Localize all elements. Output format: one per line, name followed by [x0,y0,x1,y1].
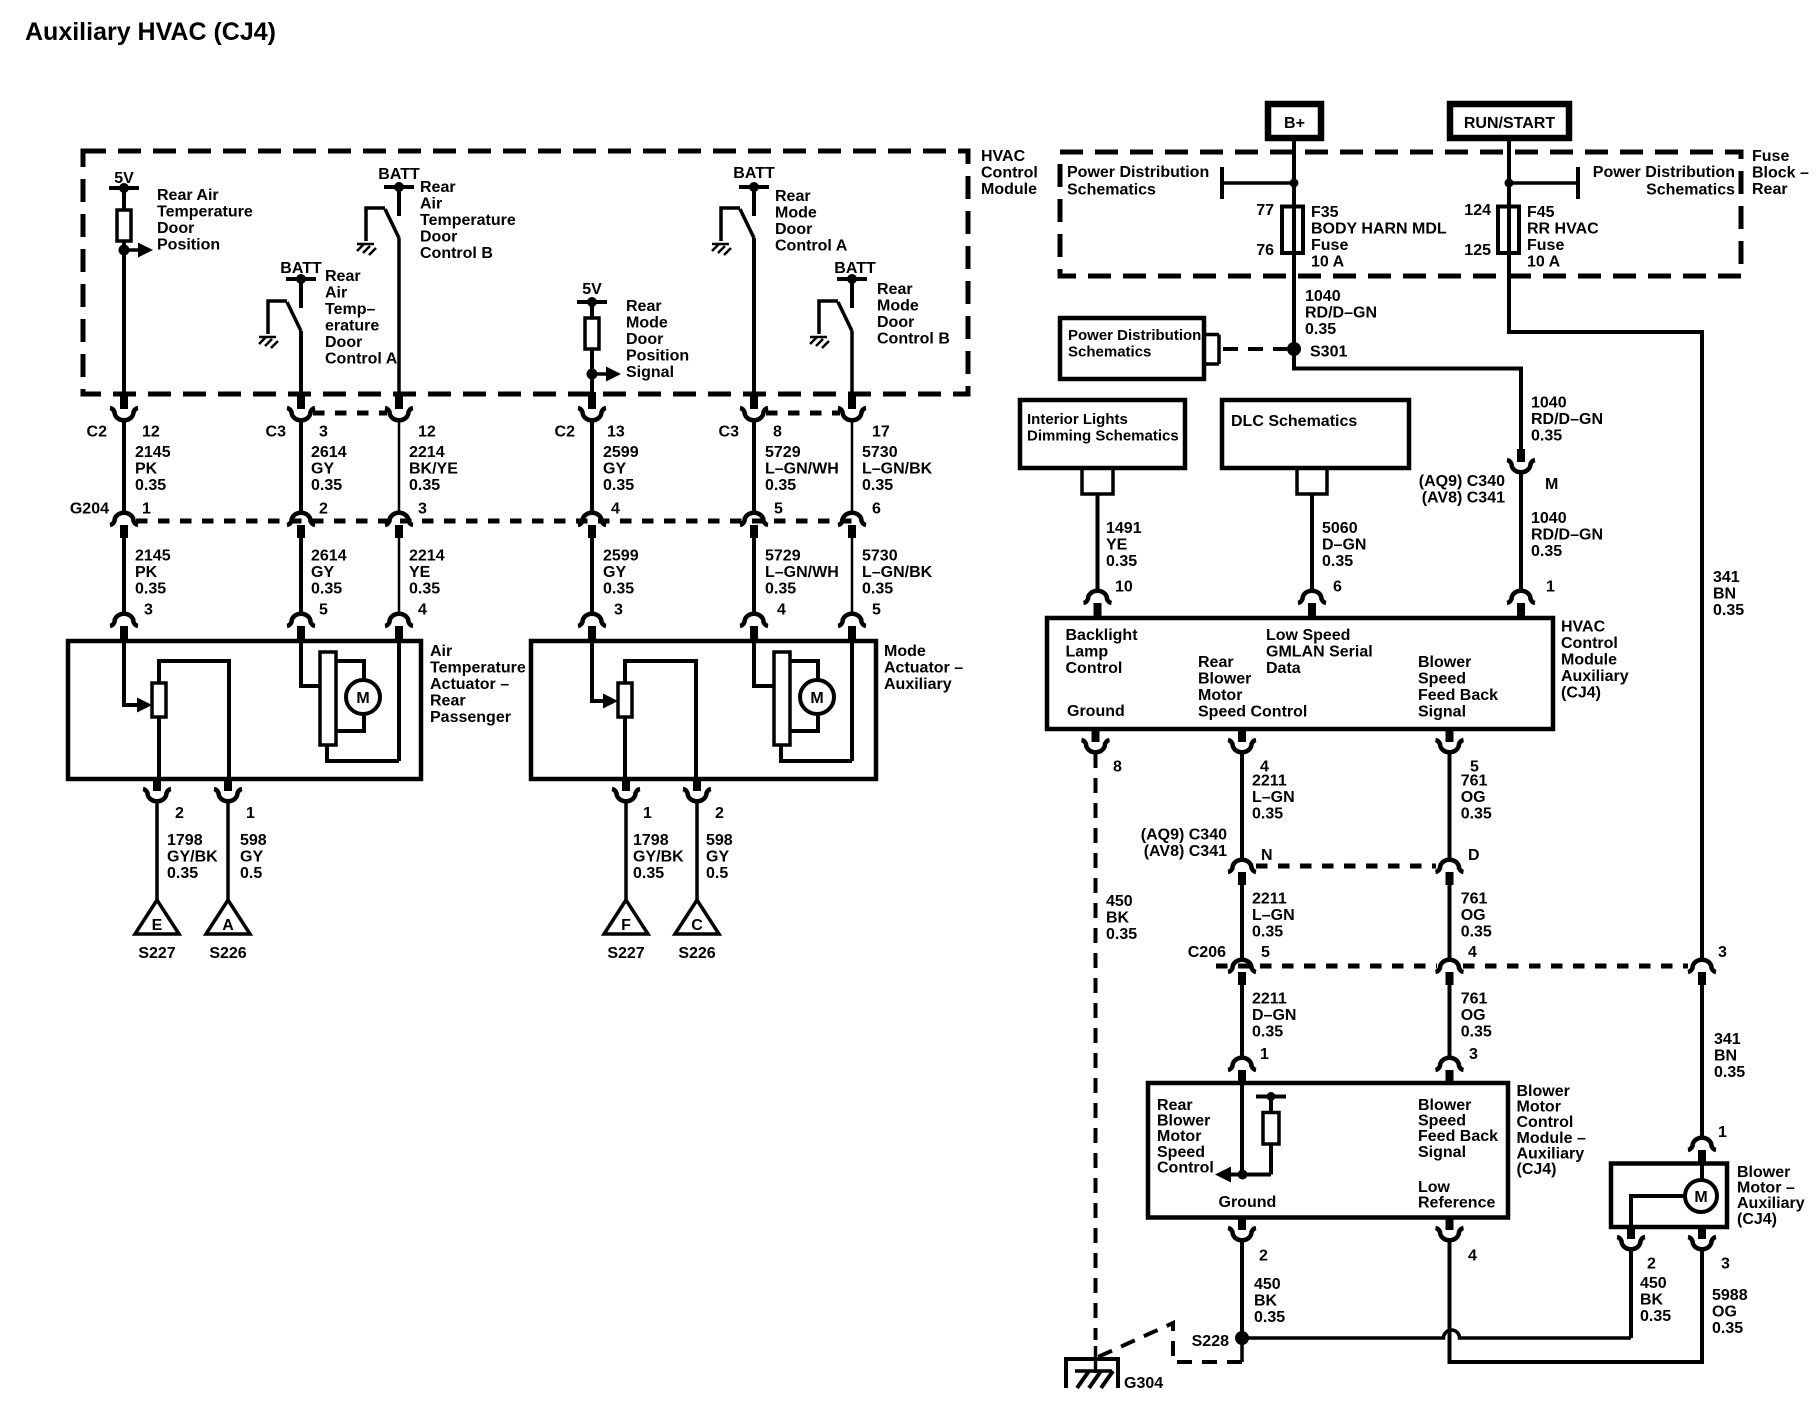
wire: 1040 RD/D-GN from F35 [1292,253,1296,371]
svg-text:Temp–: Temp– [325,301,375,318]
svg-text:B+: B+ [1284,115,1305,132]
bracket: interior lights tie [1082,468,1113,494]
wire: 761 OG segment 2 [1448,885,1452,960]
svg-text:10 A: 10 A [1527,254,1561,271]
wire: 450 BK to S228 [1240,1241,1244,1338]
svg-text:2145: 2145 [135,548,171,565]
terminal stub below blower motor pin 3 [1698,1227,1706,1239]
svg-text:2145: 2145 [135,444,171,461]
terminal stub below blower module pin 2 [1238,1218,1246,1231]
wire: resistor to connector C2-12 [122,241,126,394]
svg-text:1: 1 [1718,1124,1727,1141]
svg-text:0.35: 0.35 [862,581,893,598]
svg-text:Temperature: Temperature [157,204,253,221]
node box: RUN/START [1450,104,1569,138]
svg-text:450: 450 [1106,893,1133,910]
svg-text:GY: GY [311,564,334,581]
connector actuator pin at x=399 [385,614,413,626]
wire: pot bottom to pin 1 (right box) [623,717,627,779]
svg-text:Control: Control [981,165,1038,182]
svg-text:Control A: Control A [775,238,848,255]
svg-text:0.35: 0.35 [135,477,166,494]
motor M: auxiliary blower motor [1685,1180,1717,1212]
svg-text:4: 4 [1468,944,1477,961]
svg-text:3: 3 [1718,944,1727,961]
svg-text:Position: Position [626,348,689,365]
terminal bar: internal supply [1256,1095,1286,1099]
svg-text:GY/BK: GY/BK [167,849,218,866]
resistor: rear air temperature door position sense [117,210,131,241]
switch: Rear Mode Door Control B (with ground) [819,301,838,334]
splice triangle A -> S226 [206,900,250,934]
svg-text:Control: Control [1517,1114,1574,1131]
svg-text:0.35: 0.35 [167,865,198,882]
box: Blower Motor Control Module - Auxiliary (CJ4) [1148,1083,1508,1218]
svg-text:1: 1 [1260,1046,1269,1063]
svg-text:Auxiliary: Auxiliary [1517,1145,1585,1162]
connector actuator output pin 2 [683,789,711,801]
terminal stub into blower module at x=1449.5 [1446,1070,1454,1085]
terminal stub into HVAC module at x=1312 [1308,603,1316,620]
wire segment G204 to actuator at x=754 [752,538,756,614]
connector below HVAC module pin 5 [1436,740,1464,752]
terminal stub: connector M male [1517,449,1525,462]
svg-text:OG: OG [1461,1007,1486,1024]
wire: S228 down stub [1240,1338,1244,1362]
svg-text:Backlight: Backlight [1066,627,1139,644]
svg-text:Auxiliary HVAC (CJ4): Auxiliary HVAC (CJ4) [25,18,276,46]
connector G204 half at x=754 [740,513,768,525]
svg-text:BATT: BATT [834,260,876,277]
arrow: wiper into potentiometer [137,698,152,713]
wire: 2211 L-GN segment 2 [1240,885,1244,960]
svg-text:0.35: 0.35 [1531,428,1562,445]
svg-text:1040: 1040 [1531,510,1567,527]
connector actuator pin at x=124 [110,614,138,626]
svg-text:L–GN/WH: L–GN/WH [765,564,839,581]
svg-text:5988: 5988 [1712,1287,1748,1304]
svg-text:5060: 5060 [1322,520,1358,537]
svg-text:4: 4 [1468,1248,1477,1265]
svg-text:OG: OG [1712,1304,1737,1321]
svg-text:(AQ9) C340: (AQ9) C340 [1141,827,1227,844]
svg-text:F: F [621,917,631,934]
svg-text:0.35: 0.35 [311,581,342,598]
connector actuator pin at x=592 [578,614,606,626]
splice S228 [1235,1331,1249,1345]
svg-text:450: 450 [1640,1275,1667,1292]
svg-text:HVAC: HVAC [1561,619,1606,636]
svg-text:1798: 1798 [167,832,203,849]
connector actuator output pin 1 [214,789,242,801]
svg-text:2211: 2211 [1252,890,1287,907]
svg-text:PK: PK [135,461,158,478]
svg-text:L–GN/BK: L–GN/BK [862,564,933,581]
svg-text:1798: 1798 [633,832,669,849]
svg-text:Motor: Motor [1157,1128,1201,1145]
switch: Rear Air Temperature Door Control A (with ground) [268,301,287,334]
svg-text:C3: C3 [266,424,287,441]
resistor: rear mode door position sense [585,318,599,349]
wire: switch B to connector pin 12 [397,238,401,394]
svg-text:Blower: Blower [1517,1083,1570,1100]
svg-text:2: 2 [1647,1256,1656,1273]
svg-text:1040: 1040 [1305,288,1341,305]
svg-text:17: 17 [872,424,890,441]
svg-text:13: 13 [607,424,625,441]
svg-text:S227: S227 [138,945,175,962]
svg-text:Control: Control [1157,1159,1214,1176]
terminal stub: C2 pin 12 [120,392,128,409]
box: HVAC Control Module Auxiliary (CJ4) [1047,618,1553,729]
terminal bar: BATT col5 [739,185,769,189]
wire: pot wiper feed inside right box [592,641,604,701]
svg-text:G304: G304 [1124,1375,1163,1392]
svg-text:L–GN: L–GN [1252,907,1295,924]
wire segment row A to G204 at x=399 [398,420,401,513]
svg-text:3: 3 [1469,1046,1478,1063]
svg-text:Rear: Rear [430,693,466,710]
svg-text:598: 598 [706,832,733,849]
svg-text:2614: 2614 [311,444,347,461]
terminal stub: C3 pin 8 [750,392,758,409]
wire: 5V to resistor col4 [590,302,594,318]
svg-text:Fuse: Fuse [1752,148,1789,165]
svg-text:L–GN/WH: L–GN/WH [765,461,839,478]
connector into blower module at x=1242 [1228,1058,1256,1070]
junction: position signal tap [119,245,130,256]
box: Air Temperature Actuator - Rear Passenger [68,641,421,779]
svg-text:GMLAN Serial: GMLAN Serial [1266,644,1373,661]
svg-text:0.35: 0.35 [1252,1023,1283,1040]
wire: S228 bus with hop over low-reference [1242,1330,1631,1338]
arrow: wiper into potentiometer (right) [603,694,618,709]
svg-text:0.35: 0.35 [135,581,166,598]
svg-text:2614: 2614 [311,548,347,565]
terminal stub C206 at x=1702 [1698,972,1706,985]
connector into HVAC module at x=1097.5 [1084,591,1112,603]
motor M: mode actuator motor (right) [774,652,790,745]
svg-text:5: 5 [1261,944,1270,961]
svg-text:(CJ4): (CJ4) [1517,1161,1557,1178]
svg-text:6: 6 [1333,579,1342,596]
svg-text:0.35: 0.35 [1106,926,1137,943]
terminal stub into actuator at x=399 [395,626,403,643]
svg-text:Blower: Blower [1418,654,1471,671]
wire segment G204 to actuator at x=592 [590,538,594,614]
svg-text:Ground: Ground [1219,1194,1277,1211]
svg-text:4: 4 [611,501,620,518]
svg-text:D–GN: D–GN [1252,1007,1296,1024]
connector into blower module at x=1449.5 [1436,1058,1464,1070]
svg-text:RUN/START: RUN/START [1464,115,1555,132]
svg-text:Rear: Rear [420,179,456,196]
splice S301 [1287,342,1301,356]
svg-text:0.35: 0.35 [1106,553,1137,570]
svg-text:124: 124 [1464,202,1491,219]
svg-text:0.35: 0.35 [765,581,796,598]
svg-text:1491: 1491 [1106,520,1142,537]
wire: 2211 L-GN segment 1 [1240,753,1244,860]
svg-text:Temperature: Temperature [430,660,526,677]
svg-text:1: 1 [142,501,151,518]
ground G304 (chassis) [1066,1359,1118,1388]
svg-text:0.35: 0.35 [633,865,664,882]
svg-text:Speed: Speed [1418,1113,1466,1130]
wire: low reference 4 to blower motor return [1450,1241,1703,1362]
svg-text:Blower: Blower [1737,1164,1790,1181]
svg-text:Low Speed: Low Speed [1266,627,1350,644]
svg-text:3: 3 [319,424,328,441]
wire segment G204 to actuator at x=852 [851,538,854,614]
connector C3 pin 3 [287,408,315,420]
svg-text:2211: 2211 [1252,990,1287,1007]
connector below blower module pin 4 [1436,1228,1464,1240]
svg-text:341: 341 [1713,569,1740,586]
wire: BATT stub col5 [752,187,756,216]
svg-text:C3: C3 [719,424,740,441]
svg-text:Rear Air: Rear Air [157,187,219,204]
junction: speed control node [1238,1170,1248,1180]
terminal stub G204 at x=852 [848,525,856,538]
wire: resistor bottom lead [1269,1144,1273,1175]
terminal bar: 5V [109,186,139,190]
svg-text:S301: S301 [1310,344,1347,361]
svg-text:L–GN: L–GN [1252,789,1295,806]
connector C206 at x=1702 [1688,960,1716,972]
wire: 2211 D-GN segment 3 [1240,985,1244,1057]
svg-text:Fuse: Fuse [1311,237,1348,254]
junction: B+ distribution tap [1290,179,1299,188]
svg-text:Motor: Motor [1517,1099,1561,1116]
terminal stub into actuator at x=852 [848,626,856,643]
wire: pot top rail to pin 2 (right box) [625,661,696,779]
svg-text:(AQ9) C340: (AQ9) C340 [1419,473,1505,490]
svg-text:0.35: 0.35 [1461,923,1492,940]
svg-text:GY: GY [706,849,729,866]
wire: BATT stub col6 [850,279,854,308]
svg-text:0.35: 0.35 [603,477,634,494]
bracket: power distribution tie right [1576,167,1580,199]
svg-text:BK: BK [1254,1293,1278,1310]
svg-text:5V: 5V [582,281,602,298]
svg-text:YE: YE [409,564,431,581]
svg-text:341: 341 [1714,1031,1741,1048]
svg-text:DLC Schematics: DLC Schematics [1231,413,1357,430]
terminal stub: C3 pin 12 [395,392,403,409]
svg-text:Motor –: Motor – [1737,1180,1795,1197]
svg-text:Rear: Rear [775,188,811,205]
terminal stub into actuator at x=592 [588,626,596,643]
resistor: blower speed control pull-up [1263,1113,1279,1145]
svg-text:8: 8 [773,424,782,441]
wire segment G204 to actuator at x=399 [398,538,401,614]
svg-text:5: 5 [872,602,881,619]
svg-text:S228: S228 [1192,1333,1229,1350]
svg-text:77: 77 [1256,202,1274,219]
svg-text:0.35: 0.35 [1305,321,1336,338]
svg-text:S226: S226 [678,945,715,962]
terminal stub into actuator at x=754 [750,626,758,643]
svg-text:Rear: Rear [1752,181,1788,198]
splice triangle F -> S227 [604,900,648,934]
terminal stub below HVAC module pin 5 [1446,729,1454,742]
dashed box: HVAC Control Module (left) [83,151,968,394]
terminal stub C206 at x=1242 [1238,972,1246,985]
wire to splice triangle at x=228 [226,802,230,900]
svg-text:Rear: Rear [877,281,913,298]
terminal stub below blower motor pin 2 [1627,1227,1635,1239]
svg-text:450: 450 [1254,1276,1281,1293]
svg-text:761: 761 [1461,890,1488,907]
svg-text:Door: Door [420,229,457,246]
terminal stub below actuator x=157 [153,779,161,791]
svg-text:0.35: 0.35 [1254,1309,1285,1326]
connector C3 pin 8 [740,408,768,420]
fuse F35 BODY HARN MDL 10A [1282,207,1303,254]
svg-text:Actuator –: Actuator – [430,676,509,693]
svg-text:5730: 5730 [862,444,898,461]
svg-text:Schematics: Schematics [1067,182,1156,199]
svg-text:RD/D–GN: RD/D–GN [1531,527,1603,544]
svg-text:Actuator –: Actuator – [884,660,963,677]
wire: motor bar bottom to col3 (left box) [327,641,399,761]
svg-text:Speed: Speed [1157,1144,1205,1161]
svg-text:Mode: Mode [877,298,919,315]
connector below HVAC module pin 4 [1228,740,1256,752]
wire to splice triangle at x=626 [624,802,628,900]
connector below blower module pin 2 [1228,1228,1256,1240]
svg-text:Mode: Mode [775,205,817,222]
svg-text:M: M [1694,1189,1707,1206]
svg-text:Low: Low [1418,1179,1451,1196]
terminal stub into actuator at x=301 [297,626,305,643]
svg-text:S227: S227 [607,945,644,962]
svg-text:1: 1 [1546,579,1555,596]
connector G204 half at x=399 [385,513,413,525]
motor M: air temperature actuator motor (left) [320,652,336,745]
terminal stub below HVAC module pin 4 [1238,729,1246,742]
svg-text:Reference: Reference [1418,1195,1495,1212]
svg-text:1: 1 [246,805,255,822]
svg-text:N: N [1261,847,1273,864]
svg-text:Ground: Ground [1067,703,1125,720]
terminal bar: 5V col4 [577,300,607,304]
splice triangle C -> S226 [675,900,719,934]
wire: resistor top lead [1269,1097,1273,1113]
wire segment G204 to actuator at x=301 [299,538,303,614]
svg-text:1040: 1040 [1531,395,1567,412]
svg-text:Feed Back: Feed Back [1418,687,1498,704]
svg-text:Blower: Blower [1157,1113,1210,1130]
svg-text:PK: PK [135,564,158,581]
wire: 5060 D-GN from DLC schematics [1310,494,1314,590]
wire segment G204 to actuator at x=124 [122,538,126,614]
connector below HVAC module pin 8 [1082,740,1110,752]
potentiometer: mode position sensor (right) [618,683,632,717]
svg-text:0.35: 0.35 [1713,602,1744,619]
terminal stub into actuator at x=124 [120,626,128,643]
svg-text:Auxiliary: Auxiliary [884,676,952,693]
svg-text:0.5: 0.5 [240,865,262,882]
svg-text:Control B: Control B [420,245,493,262]
splice triangle E -> S227 [135,900,179,934]
svg-text:5: 5 [319,602,328,619]
svg-text:A: A [222,917,234,934]
terminal bar: BATT col2 [286,277,316,281]
svg-text:Signal: Signal [1418,1144,1466,1161]
connector body dashes G204 row [136,519,852,524]
terminal stub pin D [1446,872,1454,885]
svg-text:Speed: Speed [1418,671,1466,688]
svg-text:erature: erature [325,318,379,335]
box: Interior Lights Dimming Schematics [1020,400,1185,468]
svg-text:BODY HARN MDL: BODY HARN MDL [1311,221,1447,238]
svg-text:Rear: Rear [626,298,662,315]
wire: 761 OG segment 1 [1448,753,1452,860]
svg-text:0.35: 0.35 [1531,543,1562,560]
svg-text:Control: Control [1561,635,1618,652]
svg-text:76: 76 [1256,242,1274,259]
svg-text:2: 2 [319,501,328,518]
connector body dashes N-D row [1256,864,1436,869]
wire: 761 OG segment 3 [1448,985,1452,1057]
wire: 341 BN lower segment [1700,985,1704,1137]
svg-text:Rear: Rear [1198,654,1234,671]
wire: BATT stub col2 [299,279,303,308]
svg-text:Dimming Schematics: Dimming Schematics [1027,428,1179,445]
svg-text:Power Distribution: Power Distribution [1068,327,1201,344]
svg-text:Control: Control [1066,660,1123,677]
svg-text:2: 2 [715,805,724,822]
wire segment row A to G204 at x=754 [752,420,756,513]
connector C3 pin 12 [385,408,413,420]
wire: motor bar bottom to col6 (right box) [781,641,852,761]
svg-text:C: C [691,917,703,934]
svg-text:OG: OG [1461,907,1486,924]
wire: col5 feed to motor bar (right box) [754,641,774,686]
potentiometer: air temperature position sensor (left) [152,683,166,717]
connector into HVAC module at x=1312 [1298,591,1326,603]
svg-text:G204: G204 [70,501,109,518]
terminal stub G204 at x=754 [750,525,758,538]
svg-text:BK: BK [1106,910,1130,927]
svg-text:0.35: 0.35 [1322,553,1353,570]
svg-text:12: 12 [418,424,436,441]
dashed wire: 450 BK 0.35 ground lead [1094,753,1098,1340]
connector C340/C341 pin N [1228,860,1256,872]
svg-text:0.35: 0.35 [1252,806,1283,823]
svg-text:Auxiliary: Auxiliary [1561,668,1629,685]
svg-text:(AV8) C341: (AV8) C341 [1144,843,1227,860]
svg-text:F35: F35 [1311,204,1339,221]
svg-text:Module: Module [1561,652,1617,669]
junction: RUN/START distribution tap [1505,179,1514,188]
connector G204 half at x=124 [110,513,138,525]
svg-text:8: 8 [1113,759,1122,776]
terminal stub: C2 pin 13 [588,392,596,409]
terminal stub below actuator x=697 [693,779,701,791]
svg-text:3: 3 [144,602,153,619]
svg-text:0.35: 0.35 [1252,923,1283,940]
svg-text:BN: BN [1714,1048,1737,1065]
svg-text:GY: GY [603,564,626,581]
svg-text:Module: Module [981,181,1037,198]
svg-text:Signal: Signal [1418,704,1466,721]
svg-text:0.35: 0.35 [1714,1064,1745,1081]
svg-text:1: 1 [643,805,652,822]
svg-text:2599: 2599 [603,548,639,565]
